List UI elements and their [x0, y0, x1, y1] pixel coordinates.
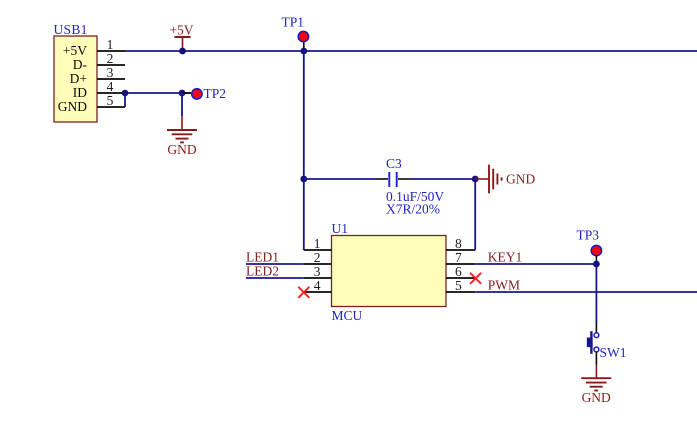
- svg-text:TP3: TP3: [577, 227, 600, 242]
- test point TP2 pad: [192, 89, 202, 99]
- svg-text:8: 8: [455, 236, 462, 251]
- wire TP3 to SW1: [595, 264, 597, 323]
- svg-text:KEY1: KEY1: [488, 250, 523, 265]
- svg-text:C3: C3: [386, 156, 402, 171]
- connector USB1 body: [54, 36, 97, 122]
- no-connect X on U1 pin 6: [470, 273, 481, 284]
- svg-text:3: 3: [107, 65, 114, 80]
- wire ID net from pin 4: [125, 92, 191, 94]
- svg-text:USB1: USB1: [54, 22, 88, 37]
- switch SW1 bottom contact: [594, 347, 599, 352]
- junction TP3 on KEY1: [593, 261, 600, 268]
- switch SW1 button cap: [587, 338, 593, 348]
- svg-text:PWM: PWM: [488, 278, 520, 293]
- ground stub (below SW1): [595, 365, 597, 379]
- switch SW1 top contact: [594, 333, 599, 338]
- switch SW1 actuator bar: [590, 331, 592, 354]
- svg-text:GND: GND: [582, 390, 611, 405]
- test point TP1 pin stub: [303, 42, 305, 49]
- svg-text:4: 4: [314, 278, 321, 293]
- svg-text:U1: U1: [332, 221, 349, 236]
- svg-text:TP2: TP2: [204, 86, 227, 101]
- wire C3 right: [410, 178, 475, 180]
- svg-text:+5V: +5V: [63, 43, 87, 58]
- junction C3 branch: [300, 176, 307, 183]
- USB1 pin 1: [97, 50, 125, 52]
- U1 pin 4: [304, 291, 332, 293]
- svg-text:4: 4: [107, 79, 114, 94]
- ground GND stub (under TP2): [181, 116, 183, 130]
- svg-text:2: 2: [314, 250, 321, 265]
- U1 pin 8: [446, 249, 475, 251]
- svg-text:+5V: +5V: [169, 23, 193, 38]
- junction pin4-pin5: [122, 90, 129, 97]
- svg-text:SW1: SW1: [600, 345, 627, 360]
- test point TP3 pad: [591, 245, 601, 255]
- ground GND symbol (right of C3): [489, 165, 502, 194]
- svg-text:2: 2: [107, 51, 114, 66]
- U1 pin 1: [304, 249, 332, 251]
- capacitor C3 plates: [389, 172, 396, 187]
- svg-text:TP1: TP1: [282, 14, 305, 29]
- svg-text:5: 5: [455, 278, 462, 293]
- junction TP1 on bus: [300, 48, 307, 55]
- wire pin 8 riser: [474, 179, 476, 250]
- IC U1 body: [332, 236, 447, 307]
- capacitor C3 left lead: [376, 178, 388, 180]
- svg-text:D+: D+: [70, 71, 87, 86]
- wire pin 5 riser: [124, 93, 126, 107]
- wire KEY1: [475, 263, 596, 265]
- svg-text:LED1: LED1: [246, 250, 279, 265]
- test point TP1 pad: [298, 31, 308, 41]
- svg-text:5: 5: [107, 93, 114, 108]
- USB1 pin 4: [97, 92, 125, 94]
- no-connect X on U1 pin 4: [298, 287, 309, 298]
- power +5V symbol stem: [182, 37, 184, 51]
- svg-text:GND: GND: [506, 172, 535, 187]
- junction +5V on bus: [179, 48, 186, 55]
- ground GND symbol (below SW1): [581, 378, 611, 390]
- svg-text:ID: ID: [73, 85, 87, 100]
- wire LED2: [246, 277, 304, 279]
- U1 pin 3: [304, 277, 332, 279]
- wire C3 left: [304, 178, 376, 180]
- U1 pin 2: [304, 263, 332, 265]
- test point TP3 pin stub: [595, 256, 597, 262]
- svg-text:6: 6: [455, 264, 462, 279]
- svg-text:3: 3: [314, 264, 321, 279]
- svg-text:7: 7: [455, 250, 462, 265]
- wire TP2 to ground: [181, 93, 183, 116]
- switch SW1 bottom pin: [595, 352, 597, 365]
- svg-text:1: 1: [107, 37, 114, 52]
- wire LED1: [246, 263, 304, 265]
- wire +5V bus: [125, 50, 697, 52]
- junction TP2: [179, 90, 186, 97]
- svg-text:LED2: LED2: [246, 264, 279, 279]
- svg-text:1: 1: [314, 236, 321, 251]
- power +5V symbol bar: [175, 36, 191, 38]
- svg-text:GND: GND: [58, 99, 87, 114]
- svg-text:GND: GND: [167, 142, 196, 157]
- USB1 pin 2: [97, 64, 125, 66]
- svg-text:MCU: MCU: [332, 308, 363, 323]
- U1 pin 6: [446, 277, 475, 279]
- U1 pin 7: [446, 263, 475, 265]
- svg-text:D-: D-: [73, 57, 88, 72]
- ground stub (right of C3): [475, 178, 488, 180]
- capacitor C3 right lead: [398, 178, 410, 180]
- svg-text:X7R/20%: X7R/20%: [386, 201, 440, 216]
- USB1 pin 5: [97, 106, 125, 108]
- test point TP2 pin stub: [182, 92, 191, 94]
- switch SW1 top pin: [595, 323, 597, 333]
- ground GND symbol (under TP2): [167, 130, 197, 142]
- U1 pin 5: [446, 291, 475, 293]
- junction C3 right: [472, 176, 479, 183]
- USB1 pin 3: [97, 78, 125, 80]
- wire TP1 vertical: [303, 51, 305, 250]
- wire PWM: [475, 291, 697, 293]
